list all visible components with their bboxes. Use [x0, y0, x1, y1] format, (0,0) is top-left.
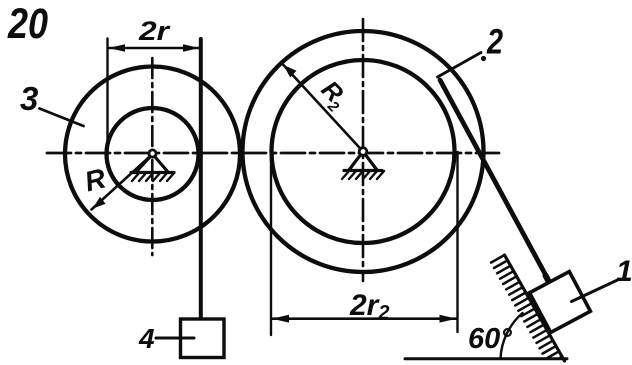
svg-text:20: 20 [7, 0, 48, 48]
svg-text:2: 2 [486, 23, 503, 62]
svg-text:3: 3 [20, 80, 38, 117]
wheel 3 outer circle (radius R) [65, 67, 240, 242]
label 2 leader line [438, 53, 482, 78]
dimension 2r right arrow [183, 44, 200, 51]
weight box 4 [181, 319, 225, 358]
radius R arrowhead [93, 197, 106, 209]
inclined surface line at 60 degrees [505, 255, 565, 361]
wheel 3 support triangle [131, 154, 174, 173]
svg-text:60°: 60° [468, 323, 512, 355]
wheel 2 support triangle [344, 152, 382, 171]
dimension 2r2 left extension line [270, 153, 272, 335]
incline hatching [491, 255, 562, 358]
wheel 2 support hatching [342, 171, 384, 179]
horizontal centerline through both wheel centers [47, 152, 499, 155]
wheel 3 vertical centerline [151, 58, 154, 255]
dimension 2r2 line [272, 317, 457, 320]
ground baseline [405, 357, 567, 360]
rope from wheel 2 rim to block 1 [440, 80, 550, 283]
svg-text:4: 4 [138, 323, 155, 354]
wheel 2 outer circle (radius R2) [243, 31, 484, 272]
block 1 on incline [530, 272, 591, 333]
label 1 leader line [572, 280, 618, 302]
svg-text:R: R [82, 162, 110, 197]
rope from wheel 3 inner rim down to weight 4 (also right extension of 2r) [199, 39, 203, 320]
wheel 2 inner circle (radius r2) [272, 60, 455, 243]
radius R2 arrowhead [283, 65, 296, 78]
svg-text:2r: 2r [138, 16, 171, 46]
dimension 2r line [109, 47, 199, 49]
svg-text:2r2: 2r2 [349, 289, 389, 324]
60 degree angle arc [501, 313, 523, 359]
dimension 2r2 right arrow [440, 315, 457, 323]
wheel 2 vertical centerline [362, 19, 365, 281]
dimension 2r2 right extension line [456, 152, 458, 332]
radius R2 arrow line on wheel 2 [283, 64, 364, 152]
rope attachment nub at block [546, 276, 550, 284]
dimension 2r left arrow [109, 44, 126, 51]
radius R arrow line on wheel 3 [92, 154, 153, 210]
wheel 3 pin [149, 150, 156, 157]
dimension 2r2 left arrow [272, 315, 289, 323]
label 3 leader line [40, 109, 84, 127]
wheel 2 pin [359, 148, 367, 156]
label 2 dot [481, 56, 486, 61]
svg-text:1: 1 [616, 255, 632, 288]
wheel 3 inner circle (radius r) [107, 108, 199, 200]
wheel 3 support hatching [132, 173, 174, 181]
dimension 2r left extension line [106, 39, 108, 156]
label 4 leader line [156, 337, 194, 340]
